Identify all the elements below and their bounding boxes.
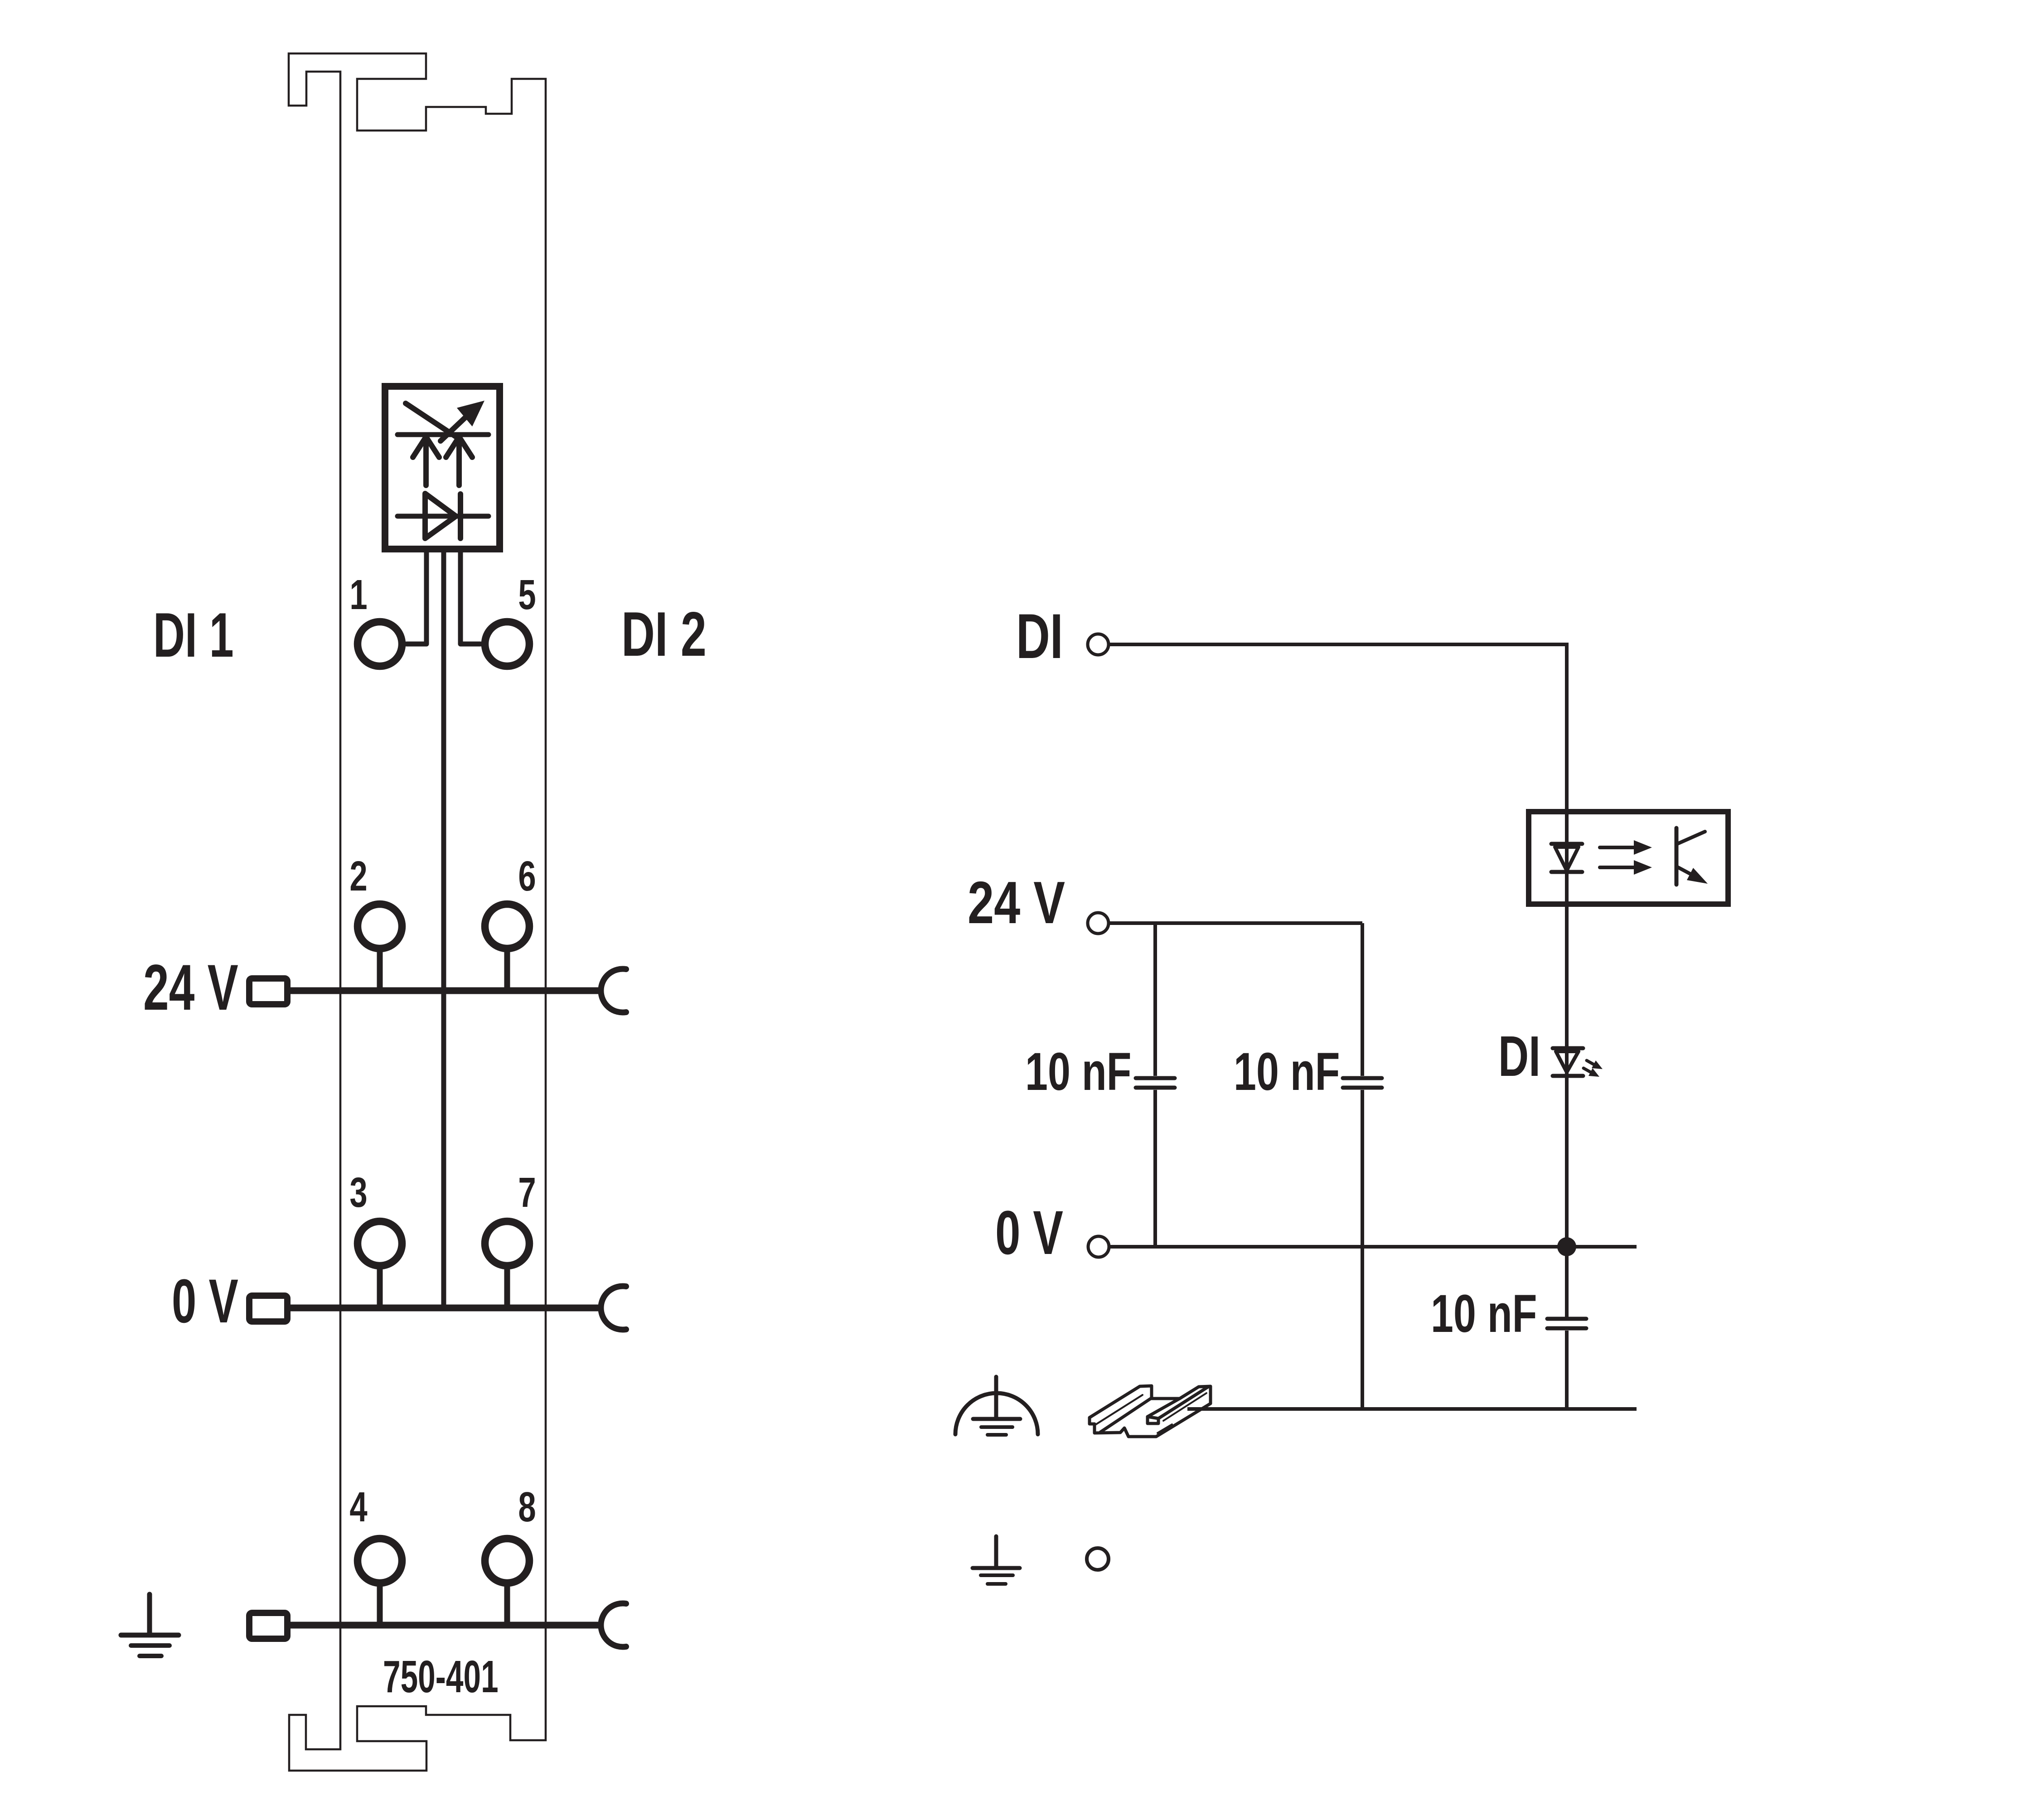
svg-text:750-401: 750-401 xyxy=(383,1652,499,1703)
svg-text:7: 7 xyxy=(518,1169,536,1216)
svg-text:4: 4 xyxy=(349,1483,367,1531)
svg-text:10 nF: 10 nF xyxy=(1431,1284,1537,1344)
svg-text:0 V: 0 V xyxy=(172,1267,238,1336)
svg-text:24 V: 24 V xyxy=(143,952,238,1024)
svg-text:24 V: 24 V xyxy=(968,869,1065,936)
svg-text:2: 2 xyxy=(349,852,367,900)
svg-text:0 V: 0 V xyxy=(995,1198,1063,1268)
svg-text:3: 3 xyxy=(349,1169,367,1216)
svg-text:DI 1: DI 1 xyxy=(153,600,234,670)
svg-text:DI: DI xyxy=(1016,601,1063,672)
svg-text:DI 2: DI 2 xyxy=(621,599,707,669)
svg-text:5: 5 xyxy=(518,571,536,619)
svg-text:6: 6 xyxy=(518,852,536,900)
svg-text:DI: DI xyxy=(1498,1025,1540,1088)
svg-text:8: 8 xyxy=(518,1483,536,1531)
svg-text:1: 1 xyxy=(349,571,367,619)
svg-text:10 nF: 10 nF xyxy=(1025,1042,1132,1102)
svg-text:10 nF: 10 nF xyxy=(1234,1042,1340,1102)
